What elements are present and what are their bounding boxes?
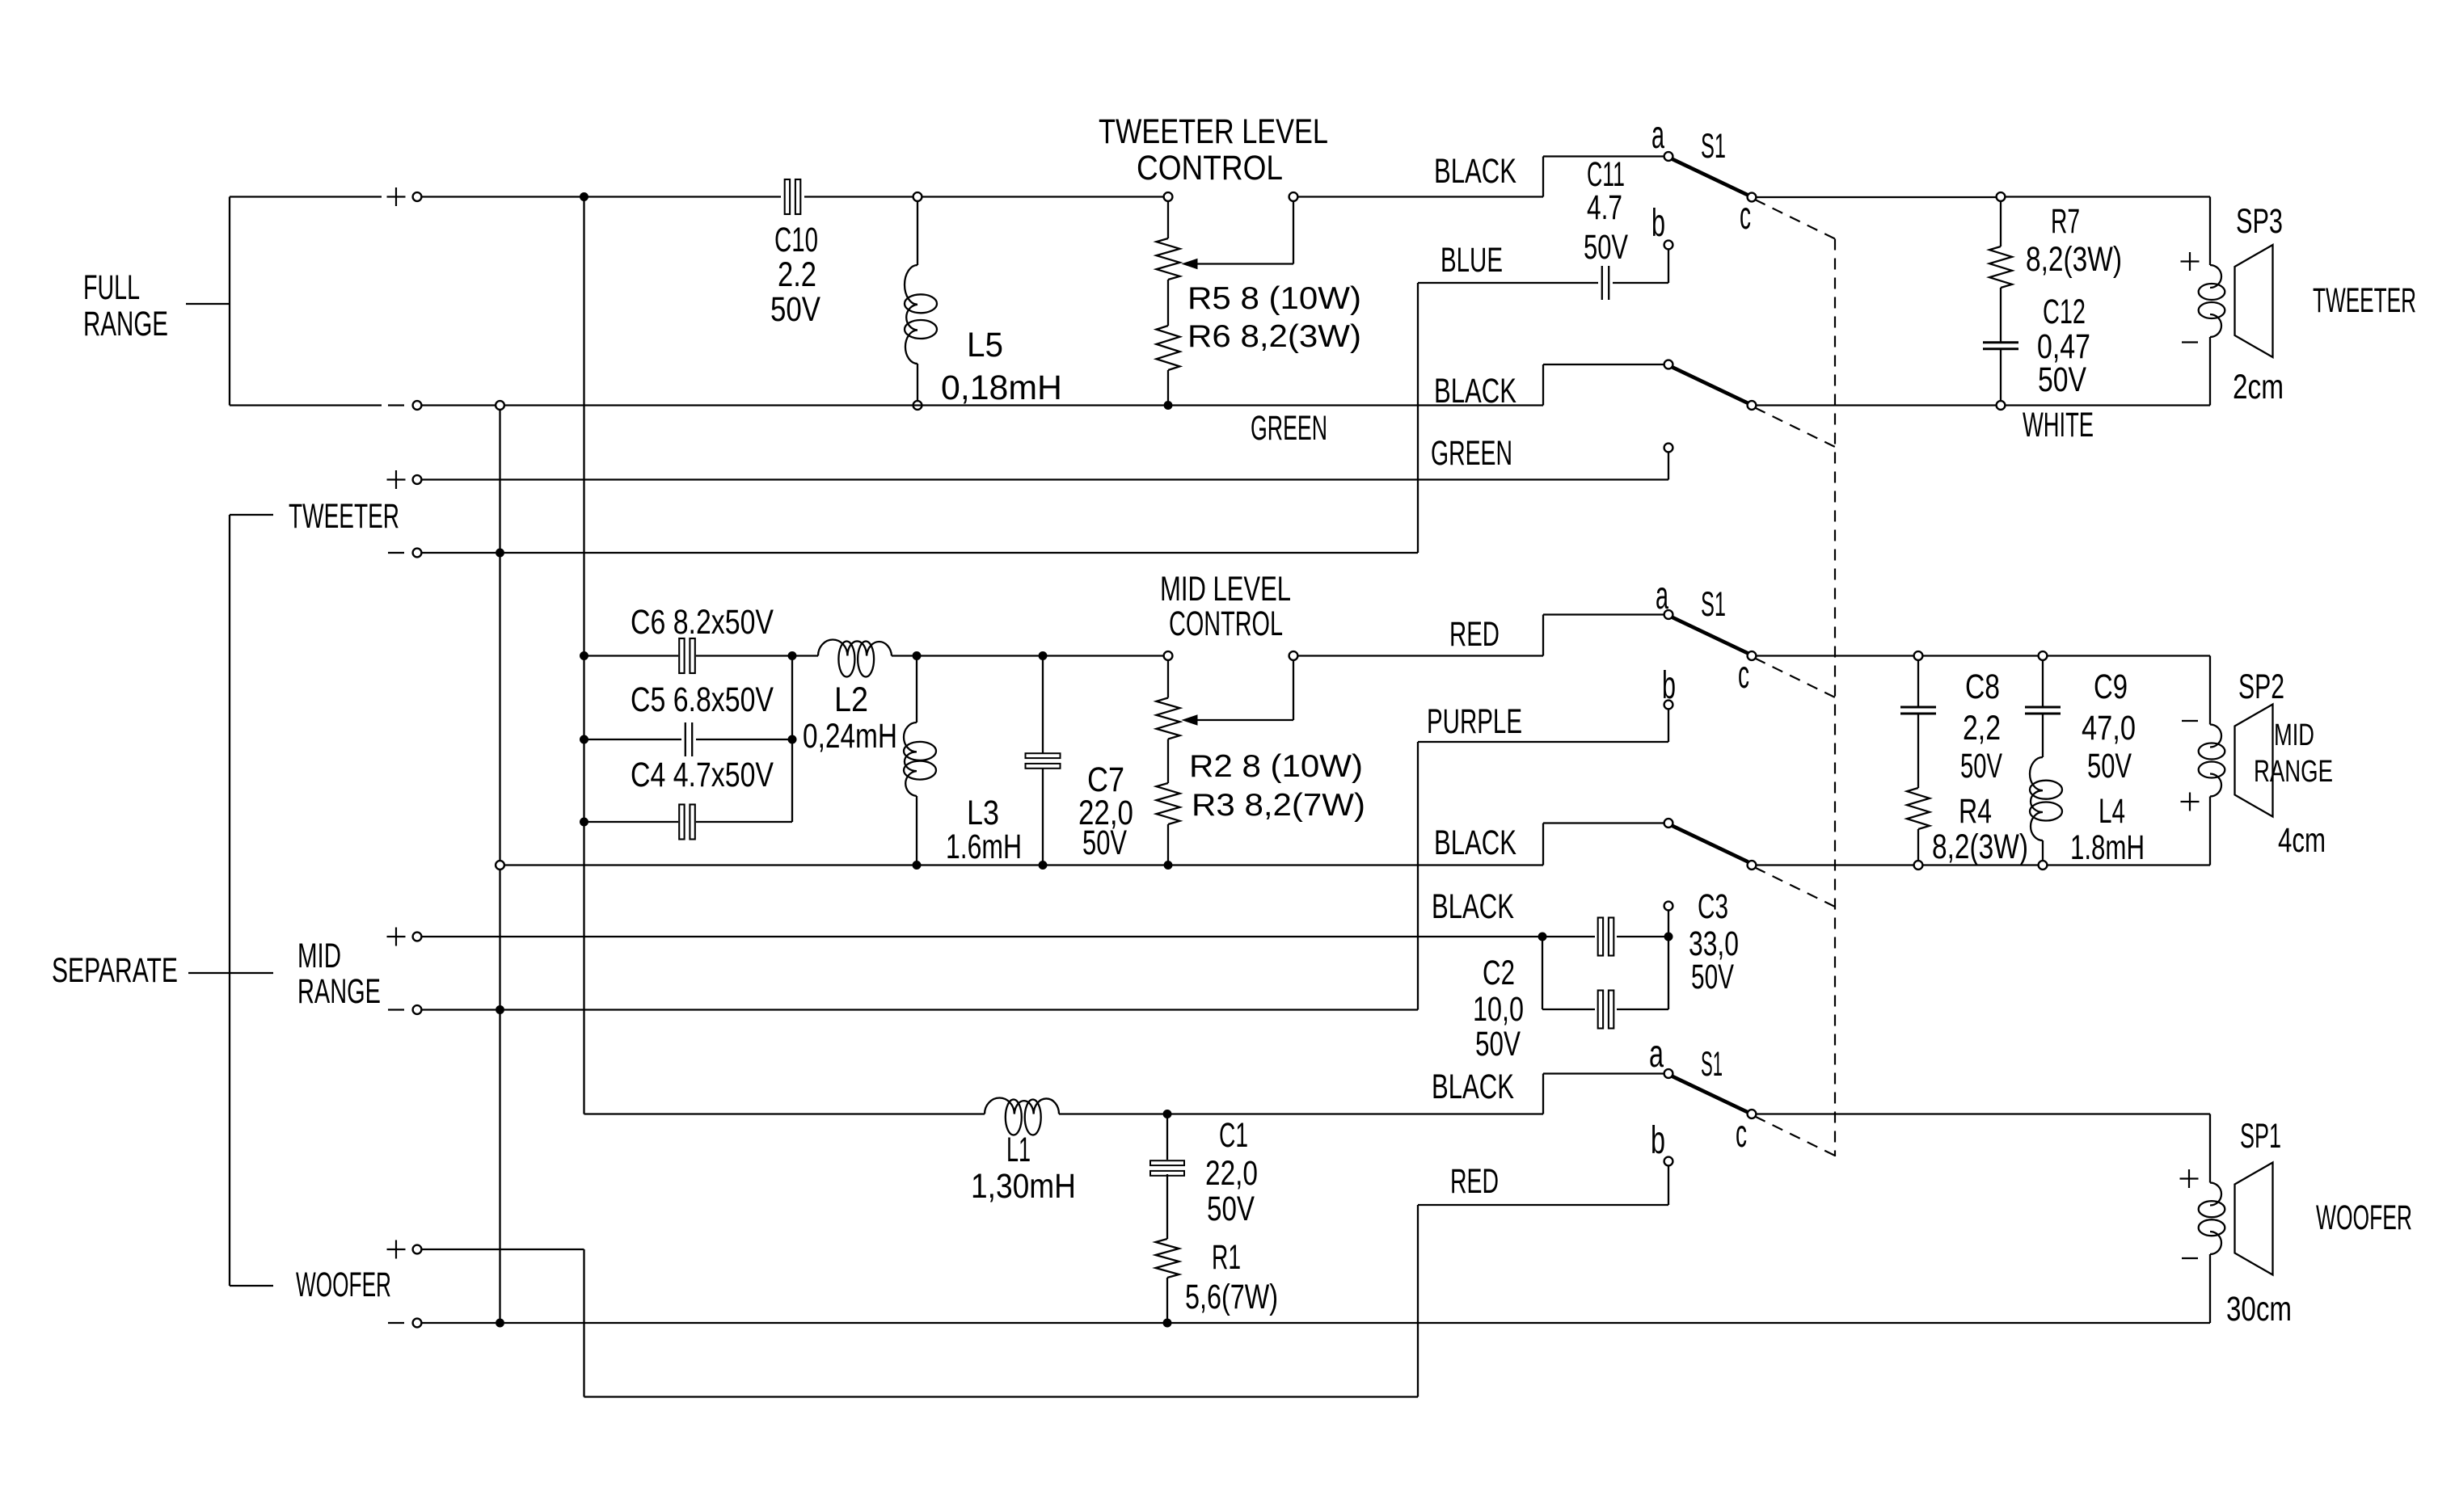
capacitor C12 — [2000, 288, 2002, 342]
inductor L3 — [916, 656, 917, 723]
node c tweeter minus — [1748, 401, 1757, 410]
node mid minus junction — [496, 1005, 504, 1014]
svg-text:C4 4.7x50V: C4 4.7x50V — [631, 756, 774, 794]
capacitor C5 — [685, 722, 686, 756]
wire C3 parallel branch — [1542, 937, 1543, 1009]
svg-text:a: a — [1649, 1033, 1664, 1076]
plus terminal FULL RANGE + — [387, 196, 406, 197]
wire bottom run — [584, 1396, 1419, 1397]
svg-text:RED: RED — [1449, 615, 1500, 654]
wire L3 to C7 top — [921, 655, 1039, 656]
dash tweeter minus — [1755, 408, 1835, 448]
svg-text:50V: 50V — [1082, 823, 1127, 862]
svg-text:TWEETER: TWEETER — [2313, 281, 2416, 320]
svg-text:c: c — [1738, 654, 1749, 697]
svg-text:WHITE: WHITE — [2023, 406, 2094, 444]
svg-text:SP3: SP3 — [2236, 202, 2283, 241]
wire to C2 — [1542, 936, 1595, 937]
wire C6 to L2 — [696, 655, 788, 656]
node L3 bottom junction — [913, 861, 922, 870]
svg-text:BLACK: BLACK — [1434, 152, 1516, 191]
svg-text:MID: MID — [297, 937, 341, 975]
svg-text:C1: C1 — [1219, 1116, 1248, 1155]
svg-text:2cm: 2cm — [2233, 368, 2284, 406]
resistor R3 — [1167, 739, 1169, 784]
svg-text:PURPLE: PURPLE — [1427, 702, 1522, 741]
capacitor C2 — [1598, 918, 1603, 956]
svg-text:8,2(3W): 8,2(3W) — [2026, 240, 2122, 279]
node C9 bottom junction — [2039, 861, 2048, 870]
switch pivot tweeter minus — [1664, 360, 1673, 369]
capacitor C4 — [679, 805, 684, 840]
node tweeter minus junction — [496, 549, 504, 558]
wiper arrow R5 — [1183, 259, 1197, 269]
capacitor C6 — [679, 638, 684, 673]
svg-text:FULL: FULL — [83, 268, 140, 307]
wire mid wiper to switch a — [1297, 655, 1543, 656]
inductor L5 — [913, 192, 922, 201]
svg-text:50V: 50V — [770, 290, 820, 329]
plus terminal WOOFER + — [387, 1249, 406, 1250]
wiper arrow R2 — [1183, 715, 1197, 725]
svg-text:C8: C8 — [1965, 668, 2000, 706]
wire C9 to SP2 — [2047, 655, 2210, 656]
speaker SP2 cone — [2235, 705, 2273, 817]
svg-text:2,2: 2,2 — [1963, 709, 2001, 748]
svg-text:R6 8,2(3W): R6 8,2(3W) — [1187, 319, 1361, 354]
inductor L2 — [792, 655, 818, 656]
switch pivot mid minus — [1664, 819, 1673, 828]
svg-text:SP1: SP1 — [2240, 1117, 2281, 1156]
node mid bottom left circle — [496, 861, 504, 870]
minus SP1 — [2182, 1257, 2198, 1259]
speaker SP1 voice coil — [2210, 1183, 2221, 1206]
plus terminal TWEETER + — [387, 478, 406, 480]
plus SP2 — [2181, 801, 2200, 802]
speaker SP2 voice coil — [2210, 725, 2221, 748]
wire pot bottom to switch — [1168, 404, 1543, 406]
minus terminal WOOFER - — [388, 1322, 404, 1324]
node C8 bottom junction — [1914, 861, 1923, 870]
svg-text:R4: R4 — [1959, 792, 1992, 831]
svg-text:CONTROL: CONTROL — [1169, 604, 1283, 643]
switch blade S1 mid — [1672, 617, 1748, 654]
speaker SP1 cone — [2235, 1163, 2273, 1275]
svg-text:MID: MID — [2274, 718, 2314, 752]
svg-text:TWEETER: TWEETER — [289, 497, 399, 536]
resistor R4 — [1907, 788, 1930, 829]
svg-text:GREEN: GREEN — [1251, 409, 1327, 448]
speaker SP3 leads — [2209, 197, 2211, 266]
resistor R1 — [1156, 1239, 1179, 1278]
svg-text:R1: R1 — [1212, 1238, 1241, 1277]
node c mid minus — [1748, 861, 1757, 870]
wire mid plus row — [421, 936, 1538, 937]
svg-text:L1: L1 — [1006, 1131, 1031, 1169]
node C2 left junction — [1538, 933, 1547, 941]
inductor L1 — [985, 1098, 1059, 1114]
wire BLUE — [1664, 241, 1673, 250]
node rail1 top circle — [496, 401, 504, 410]
wire full-range - lead — [230, 404, 382, 406]
wire woofer minus row — [421, 1322, 496, 1324]
svg-text:MID LEVEL: MID LEVEL — [1160, 570, 1291, 609]
switch blade tweeter minus — [1672, 367, 1748, 403]
wire rail2 — [583, 197, 584, 1114]
wire RED — [1664, 1157, 1673, 1166]
wire full-range + lead — [230, 196, 382, 197]
svg-text:50V: 50V — [1960, 747, 2002, 785]
wire C2 right — [1617, 936, 1668, 937]
svg-text:CONTROL: CONTROL — [1137, 149, 1283, 187]
inductor L4 — [2030, 757, 2043, 840]
svg-text:L4: L4 — [2099, 792, 2125, 831]
svg-text:S1: S1 — [1701, 1045, 1723, 1084]
node SEPARATE bracket — [229, 515, 230, 1286]
svg-text:b: b — [1651, 202, 1665, 245]
node mid pot bottom junction — [1164, 861, 1173, 870]
svg-text:1.8mH: 1.8mH — [2070, 828, 2145, 867]
node C7 top junction — [1039, 651, 1048, 660]
minus SP3 — [2182, 341, 2198, 343]
resistor R6 — [1167, 280, 1169, 326]
wire R7bot to SP3 minus — [2005, 404, 2210, 406]
node FULL RANGE bracket — [229, 197, 230, 406]
resistor R7 — [2000, 201, 2002, 247]
node junction rail2 top — [580, 192, 588, 201]
node pot bottom junction — [1164, 401, 1173, 410]
wire mid bottom to pivot — [1542, 823, 1544, 866]
dash mid plus — [1755, 659, 1835, 698]
svg-text:b: b — [1662, 664, 1676, 707]
capacitor C10 — [785, 179, 790, 214]
svg-text:50V: 50V — [2087, 747, 2132, 785]
svg-text:50V: 50V — [1691, 958, 1734, 996]
svg-text:L3: L3 — [967, 794, 999, 832]
node c woofer — [1748, 1110, 1757, 1118]
potentiometer R5 — [1164, 192, 1173, 201]
svg-text:1.6mH: 1.6mH — [946, 828, 1022, 866]
svg-text:GREEN: GREEN — [1431, 434, 1512, 473]
potentiometer R2 — [1164, 651, 1173, 660]
svg-text:BLACK: BLACK — [1434, 823, 1516, 862]
svg-text:S1: S1 — [1701, 127, 1726, 166]
svg-text:c: c — [1736, 1113, 1747, 1156]
svg-text:C5 6.8x50V: C5 6.8x50V — [631, 680, 774, 719]
svg-text:50V: 50V — [1207, 1190, 1255, 1228]
node R7 bottom junction — [1997, 401, 2006, 410]
wire woofer plus — [421, 1249, 584, 1250]
wire to rail1 — [421, 404, 496, 406]
svg-text:10,0: 10,0 — [1473, 990, 1524, 1029]
wire C7 to mid pot — [1047, 655, 1164, 656]
dash mid minus — [1755, 868, 1835, 908]
svg-text:RANGE: RANGE — [83, 305, 168, 343]
wire mid c to block — [1756, 655, 1914, 656]
svg-text:WOOFER: WOOFER — [2316, 1198, 2412, 1237]
capacitor C8 — [1917, 660, 1919, 707]
node C1 junction — [1163, 1110, 1172, 1118]
wire C4 right — [696, 821, 792, 823]
wire mid minus row — [421, 1009, 496, 1010]
minus terminal MID - — [388, 1009, 404, 1010]
switch blade mid minus — [1672, 826, 1748, 862]
svg-text:1,30mH: 1,30mH — [971, 1167, 1076, 1206]
wire C5 right — [696, 739, 788, 740]
wire C5 row left — [580, 735, 588, 744]
svg-text:C9: C9 — [2094, 668, 2128, 706]
svg-text:0,24mH: 0,24mH — [803, 717, 897, 756]
svg-text:S1: S1 — [1701, 585, 1726, 624]
svg-text:L5: L5 — [967, 326, 1003, 364]
wire top row to C10 — [421, 196, 781, 197]
wire c to R7 bottom — [1756, 404, 1997, 406]
svg-text:c: c — [1740, 195, 1751, 238]
svg-text:BLACK: BLACK — [1432, 1068, 1514, 1106]
svg-text:C6 8.2x50V: C6 8.2x50V — [631, 603, 774, 642]
svg-text:RANGE: RANGE — [297, 972, 381, 1011]
svg-text:8,2(3W): 8,2(3W) — [1932, 828, 2028, 866]
svg-text:50V: 50V — [1475, 1025, 1521, 1063]
svg-text:R5 8 (10W): R5 8 (10W) — [1187, 281, 1361, 316]
wire tweeter minus row — [421, 552, 496, 554]
svg-text:BLACK: BLACK — [1432, 887, 1514, 926]
svg-text:C10: C10 — [774, 221, 818, 259]
svg-text:b: b — [1651, 1119, 1665, 1162]
minus terminal FULL RANGE - — [388, 404, 404, 406]
wire C8-C9 top — [1922, 655, 2039, 656]
wire GREEN row — [421, 478, 1668, 480]
plus SP3 — [2181, 260, 2200, 262]
wire c to R7 — [1756, 196, 1997, 198]
svg-text:5,6(7W): 5,6(7W) — [1185, 1278, 1278, 1316]
wire C8-C9 bottom — [1922, 864, 2039, 866]
svg-text:30cm: 30cm — [2226, 1290, 2292, 1329]
svg-text:C2: C2 — [1483, 954, 1515, 992]
wire L1 to C1 — [1059, 1113, 1163, 1114]
plus terminal MID + — [387, 936, 406, 937]
wire C3 b stub — [1668, 910, 1669, 937]
wire bottom row — [504, 404, 1164, 406]
wire mid bottom row — [504, 864, 913, 866]
capacitor C1 — [1166, 1114, 1168, 1160]
svg-text:R3 8,2(7W): R3 8,2(7W) — [1192, 788, 1365, 823]
node C7 bottom junction — [1039, 861, 1048, 870]
svg-text:R7: R7 — [2051, 202, 2080, 241]
svg-text:47,0: 47,0 — [2082, 709, 2136, 748]
svg-text:L2: L2 — [834, 680, 868, 719]
dash tweeter plus — [1755, 200, 1835, 239]
node woofer minus junction — [496, 1319, 504, 1328]
dash coupling bar — [1834, 239, 1836, 1157]
node C2 right junction — [1664, 933, 1673, 941]
svg-text:WOOFER: WOOFER — [296, 1266, 391, 1304]
switch blade S1 woofer — [1672, 1076, 1748, 1113]
plus SP1 — [2180, 1177, 2199, 1179]
node R7 top junction — [1997, 192, 2006, 201]
svg-text:50V: 50V — [2038, 360, 2086, 399]
dash woofer — [1755, 1117, 1835, 1156]
svg-text:SEPARATE: SEPARATE — [52, 951, 178, 990]
node c mid — [1748, 651, 1757, 660]
svg-text:4cm: 4cm — [2278, 821, 2326, 860]
svg-text:RANGE: RANGE — [2254, 755, 2333, 789]
svg-text:C3: C3 — [1698, 887, 1728, 926]
wire rail1 — [499, 410, 500, 1324]
wire C1 to switch — [1167, 1113, 1543, 1114]
svg-text:BLUE: BLUE — [1441, 241, 1503, 280]
svg-text:R2 8 (10W): R2 8 (10W) — [1189, 749, 1363, 784]
wire L1 row — [584, 1113, 985, 1114]
node C8 top junction — [1914, 651, 1923, 660]
node C9 top junction — [2039, 651, 2048, 660]
speaker SP3 voice coil — [2210, 265, 2221, 288]
wire PURPLE — [1664, 701, 1673, 710]
wire C10 to pot — [804, 196, 1164, 197]
switch blade S1 tweeter — [1672, 159, 1748, 196]
node green end circle — [1664, 444, 1673, 453]
wire C6 row left — [580, 651, 588, 660]
capacitor C9 — [2042, 660, 2044, 707]
node c tweeter — [1748, 193, 1757, 202]
minus SP2 — [2182, 720, 2198, 722]
wire C9bot to SP2 — [2047, 864, 2210, 866]
node R1 bottom junction — [1163, 1319, 1172, 1328]
minus terminal TWEETER - — [388, 552, 404, 554]
wire c4c5c6 rail — [791, 656, 793, 823]
svg-text:SP2: SP2 — [2238, 668, 2284, 706]
svg-text:a: a — [1651, 114, 1664, 157]
speaker SP2 leads — [2209, 656, 2211, 725]
speaker SP1 leads — [2209, 1114, 2211, 1183]
svg-text:4.7: 4.7 — [1587, 188, 1622, 227]
speaker SP3 cone — [2235, 245, 2273, 357]
svg-text:RED: RED — [1450, 1162, 1499, 1201]
svg-text:C12: C12 — [2043, 293, 2086, 331]
node L3 top junction — [913, 651, 922, 660]
capacitor C11 — [1601, 266, 1603, 300]
capacitor C7 — [1042, 656, 1044, 754]
wire mid minus c to block — [1756, 864, 1914, 866]
wire wiper to switch a — [1297, 196, 1543, 197]
svg-text:50V: 50V — [1584, 228, 1628, 267]
svg-text:2.2: 2.2 — [778, 255, 816, 294]
svg-text:22,0: 22,0 — [1205, 1154, 1258, 1193]
wire c woofer to SP1 — [1756, 1113, 2210, 1114]
wire R7 to SP3 plus — [2005, 196, 2210, 197]
svg-text:TWEETER LEVEL: TWEETER LEVEL — [1099, 112, 1328, 151]
wire C4 row left — [580, 818, 588, 827]
svg-text:0,18mH: 0,18mH — [941, 369, 1062, 407]
svg-text:BLACK: BLACK — [1434, 372, 1516, 411]
